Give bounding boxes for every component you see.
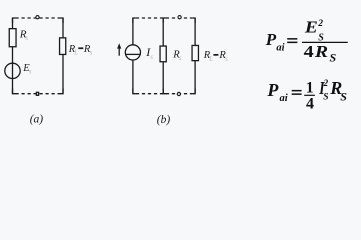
wire: circuit (b) top rail middle corner stub xyxy=(163,18,166,23)
wire: circuit (b) bottom-left corner stub xyxy=(133,89,136,94)
svg-text:P: P xyxy=(266,80,279,100)
wire: circuit (a) bottom-right corner stub xyxy=(61,89,64,94)
wire: circuit (b) current-source branch lower xyxy=(132,60,134,94)
load resistor R_L (b) xyxy=(192,45,198,60)
wire: circuit (b) right branch upper xyxy=(194,18,196,45)
wire: circuit (b) top-left corner stub xyxy=(133,18,136,23)
current direction arrow xyxy=(117,43,121,56)
wire: circuit (a) right branch lower xyxy=(62,54,64,93)
terminal: circuit (b) bottom port xyxy=(177,92,180,95)
wire: circuit (a) bottom rail (dashed) xyxy=(16,93,61,95)
wire: circuit (b) bottom rail middle corner stub xyxy=(163,89,166,94)
wire: circuit (b) middle branch lower xyxy=(162,62,164,94)
svg-text:s: s xyxy=(225,55,228,63)
current source I_S circle xyxy=(125,45,140,60)
svg-text:4: 4 xyxy=(306,96,314,113)
svg-text:4: 4 xyxy=(304,42,315,61)
wire: circuit (a) left branch through source down to bottom xyxy=(12,47,14,94)
terminal: circuit (b) top port xyxy=(178,16,181,19)
wire: circuit (b) bottom-right corner stub xyxy=(193,89,196,94)
resistor R_S (b) xyxy=(160,46,166,62)
wire: circuit (a) right branch upper xyxy=(62,18,64,38)
resistor R_S (a) xyxy=(9,29,16,47)
svg-text:S: S xyxy=(330,50,337,64)
svg-text:E: E xyxy=(304,18,318,37)
svg-text:ai: ai xyxy=(280,93,288,104)
wire: circuit (a) top rail (dashed) xyxy=(16,17,61,19)
formula 1: P_ai = E_S^2 / (4 R_S) xyxy=(265,18,348,65)
svg-text:ai: ai xyxy=(276,43,284,54)
terminal: circuit (a) bottom port xyxy=(36,92,38,95)
current source chord xyxy=(125,53,140,55)
svg-text:L: L xyxy=(73,49,78,57)
wire: circuit (b) top-right corner stub xyxy=(193,18,196,23)
svg-text:(a): (a) xyxy=(30,113,44,125)
svg-text:S: S xyxy=(340,90,347,104)
load resistor R_L (a) xyxy=(60,38,66,55)
svg-text:s: s xyxy=(90,49,93,57)
wire: circuit (a) left branch upper xyxy=(12,18,14,29)
svg-text:s: s xyxy=(179,54,182,62)
svg-text:s: s xyxy=(29,68,32,76)
wire: circuit (a) bottom-left corner stub xyxy=(13,89,16,94)
svg-text:P: P xyxy=(265,30,277,49)
svg-text:S: S xyxy=(323,93,328,103)
wire: circuit (a) top-right corner stub xyxy=(61,18,64,23)
formula 2: P_ai = (1/4) I_S^2 R_S xyxy=(266,78,347,112)
wire: circuit (b) right branch lower xyxy=(194,61,196,94)
svg-text:R: R xyxy=(314,42,328,61)
wire: circuit (a) top-left corner stub xyxy=(13,18,16,23)
svg-text:s: s xyxy=(150,53,153,61)
wire: circuit (b) middle branch upper xyxy=(162,18,164,46)
terminal: circuit (a) top port xyxy=(36,16,39,19)
svg-text:2: 2 xyxy=(317,19,323,29)
svg-text:(b): (b) xyxy=(157,114,171,126)
svg-text:L: L xyxy=(208,55,213,63)
svg-text:2: 2 xyxy=(323,78,329,88)
voltage source E_S circle xyxy=(5,63,20,78)
wire: circuit (b) current-source branch upper xyxy=(132,18,134,45)
wire: circuit (b) top rail (dashed) xyxy=(136,17,193,19)
wire: circuit (b) bottom rail (dashed) xyxy=(136,93,193,95)
svg-text:1: 1 xyxy=(306,79,314,96)
svg-text:s: s xyxy=(25,34,28,42)
